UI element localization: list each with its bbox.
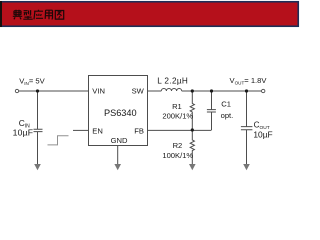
svg-text:EN: EN: [92, 127, 103, 136]
svg-text:R2: R2: [173, 141, 183, 150]
svg-text:opt.: opt.: [221, 111, 234, 120]
svg-text:FB: FB: [134, 127, 144, 136]
svg-text:VIN= 5V: VIN= 5V: [19, 77, 45, 86]
svg-text:10µF: 10µF: [253, 130, 272, 140]
svg-text:R1: R1: [172, 102, 182, 111]
svg-text:VIN: VIN: [92, 87, 105, 96]
svg-text:C1: C1: [221, 99, 231, 108]
svg-text:L 2.2µH: L 2.2µH: [157, 76, 188, 85]
svg-text:SW: SW: [132, 87, 145, 96]
svg-text:200K/1%: 200K/1%: [162, 112, 193, 121]
svg-text:GND: GND: [111, 136, 128, 145]
svg-text:100K/1%: 100K/1%: [162, 151, 193, 160]
svg-text:10µF: 10µF: [13, 127, 34, 137]
svg-text:PS6340: PS6340: [104, 108, 137, 118]
svg-text:VOUT= 1.8V: VOUT= 1.8V: [230, 76, 268, 85]
